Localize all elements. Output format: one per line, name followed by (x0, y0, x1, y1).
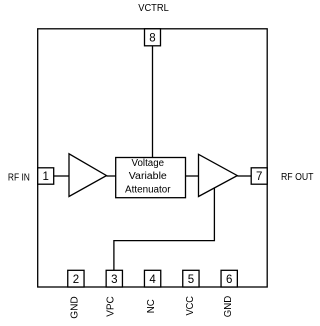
svg-text:GND: GND (69, 296, 81, 319)
svg-text:4: 4 (149, 274, 156, 286)
svg-text:Voltage: Voltage (132, 158, 165, 169)
svg-text:7: 7 (256, 171, 262, 183)
svg-text:VCC: VCC (184, 296, 196, 316)
svg-text:8: 8 (149, 33, 155, 45)
svg-text:GND: GND (222, 295, 234, 317)
wire pin8 to attenuator control input (152, 46, 154, 158)
svg-text:NC: NC (145, 299, 157, 313)
pin 1 (RF IN) (38, 168, 54, 184)
svg-text:3: 3 (111, 274, 117, 286)
pin 3 (VPC) (106, 270, 122, 287)
pin 5 (VCC) (183, 270, 199, 287)
svg-text:VPC: VPC (104, 296, 116, 317)
svg-text:RF IN: RF IN (8, 172, 30, 184)
svg-text:Variable: Variable (129, 171, 167, 182)
svg-text:6: 6 (226, 274, 232, 286)
pin 7 (RF OUT) (251, 168, 267, 184)
wire amp A1 output to attenuator input (107, 175, 116, 177)
svg-text:VCTRL: VCTRL (138, 2, 169, 14)
wire pin1 to amp A1 input (54, 175, 69, 177)
pin 2 (GND) (68, 270, 84, 287)
IC package outline U1 (38, 29, 268, 287)
voltage variable attenuator block (116, 158, 186, 198)
pin 6 (GND) (221, 270, 237, 287)
svg-text:1: 1 (42, 171, 48, 183)
pin 4 (NC) (144, 270, 160, 287)
amplifier A1 (69, 154, 107, 197)
pin 8 (VCTRL) (145, 29, 161, 46)
svg-text:2: 2 (73, 274, 79, 286)
svg-text:Attenuator: Attenuator (125, 185, 171, 196)
svg-text:5: 5 (188, 274, 194, 286)
svg-text:RF OUT: RF OUT (281, 171, 314, 183)
wire amp A2 output to pin7 (237, 175, 251, 177)
amplifier A2 (199, 154, 238, 196)
wire amp A2 power control to pin3 (VPC) (114, 188, 214, 271)
wire attenuator output to amp A2 input (186, 175, 199, 177)
